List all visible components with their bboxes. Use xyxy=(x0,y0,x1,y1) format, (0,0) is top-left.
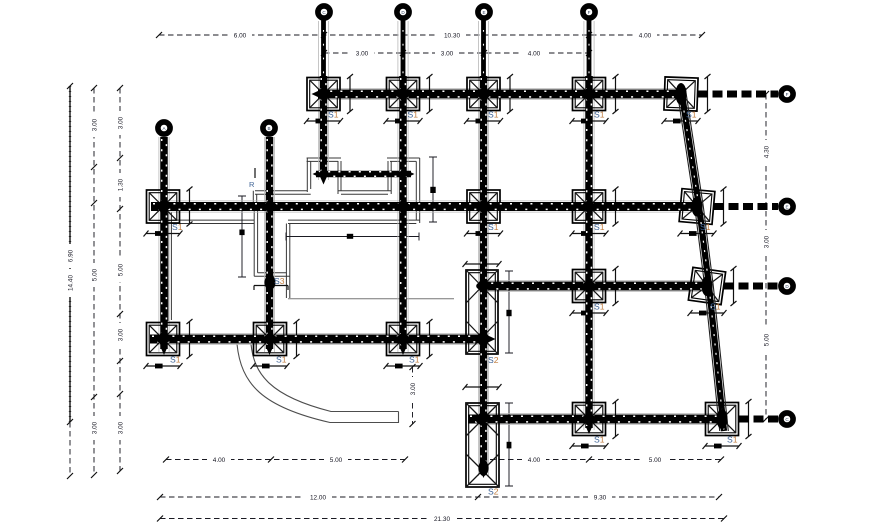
svg-text:12.00: 12.00 xyxy=(310,495,326,502)
svg-text:S1: S1 xyxy=(328,110,339,120)
svg-text:S1: S1 xyxy=(170,355,181,365)
svg-text:B: B xyxy=(267,126,270,131)
svg-text:3.00: 3.00 xyxy=(118,116,125,129)
svg-text:S1: S1 xyxy=(686,110,697,120)
svg-text:4.00: 4.00 xyxy=(528,51,541,58)
svg-text:4.30: 4.30 xyxy=(764,145,771,158)
svg-text:S1: S1 xyxy=(594,302,605,312)
svg-text:S1: S1 xyxy=(409,355,420,365)
svg-text:S1: S1 xyxy=(276,355,287,365)
svg-text:S1: S1 xyxy=(594,110,605,120)
svg-text:4.00: 4.00 xyxy=(213,457,226,464)
svg-text:3.00: 3.00 xyxy=(92,118,99,131)
svg-text:5.00: 5.00 xyxy=(92,268,99,281)
svg-text:3.00: 3.00 xyxy=(118,328,125,341)
svg-text:14.40: 14.40 xyxy=(68,275,75,291)
svg-text:S1: S1 xyxy=(594,435,605,445)
svg-text:S1: S1 xyxy=(408,110,419,120)
svg-text:21.30: 21.30 xyxy=(434,516,450,523)
svg-text:S2: S2 xyxy=(488,355,499,365)
svg-text:S1: S1 xyxy=(172,222,183,232)
svg-text:5.00: 5.00 xyxy=(118,263,125,276)
svg-text:5.00: 5.00 xyxy=(649,457,662,464)
svg-text:4.00: 4.00 xyxy=(528,457,541,464)
svg-text:E: E xyxy=(482,10,485,15)
svg-text:F: F xyxy=(588,10,591,15)
svg-text:F: F xyxy=(786,92,789,97)
svg-text:S2: S2 xyxy=(488,487,499,497)
svg-text:5.00: 5.00 xyxy=(330,457,343,464)
svg-text:10.30: 10.30 xyxy=(444,33,460,40)
svg-text:3.00: 3.00 xyxy=(764,235,771,248)
svg-text:3.00: 3.00 xyxy=(441,51,454,58)
svg-text:4.00: 4.00 xyxy=(639,33,652,40)
svg-text:S1: S1 xyxy=(727,435,738,445)
svg-text:6.00: 6.00 xyxy=(234,33,247,40)
svg-text:3.00: 3.00 xyxy=(118,421,125,434)
svg-text:S1: S1 xyxy=(700,222,711,232)
svg-text:6.90: 6.90 xyxy=(68,249,75,262)
svg-text:9.30: 9.30 xyxy=(594,495,607,502)
svg-text:5.00: 5.00 xyxy=(764,333,771,346)
svg-text:3.00: 3.00 xyxy=(410,382,417,395)
svg-text:E: E xyxy=(785,204,788,209)
svg-text:1.30: 1.30 xyxy=(118,178,125,191)
svg-text:S1: S1 xyxy=(488,110,499,120)
svg-text:3.00: 3.00 xyxy=(92,421,99,434)
svg-text:S1: S1 xyxy=(594,222,605,232)
svg-text:S1: S1 xyxy=(710,302,721,312)
svg-text:S1: S1 xyxy=(488,222,499,232)
svg-text:S3: S3 xyxy=(274,276,285,286)
svg-text:3.00: 3.00 xyxy=(356,51,369,58)
svg-text:R: R xyxy=(249,180,255,189)
